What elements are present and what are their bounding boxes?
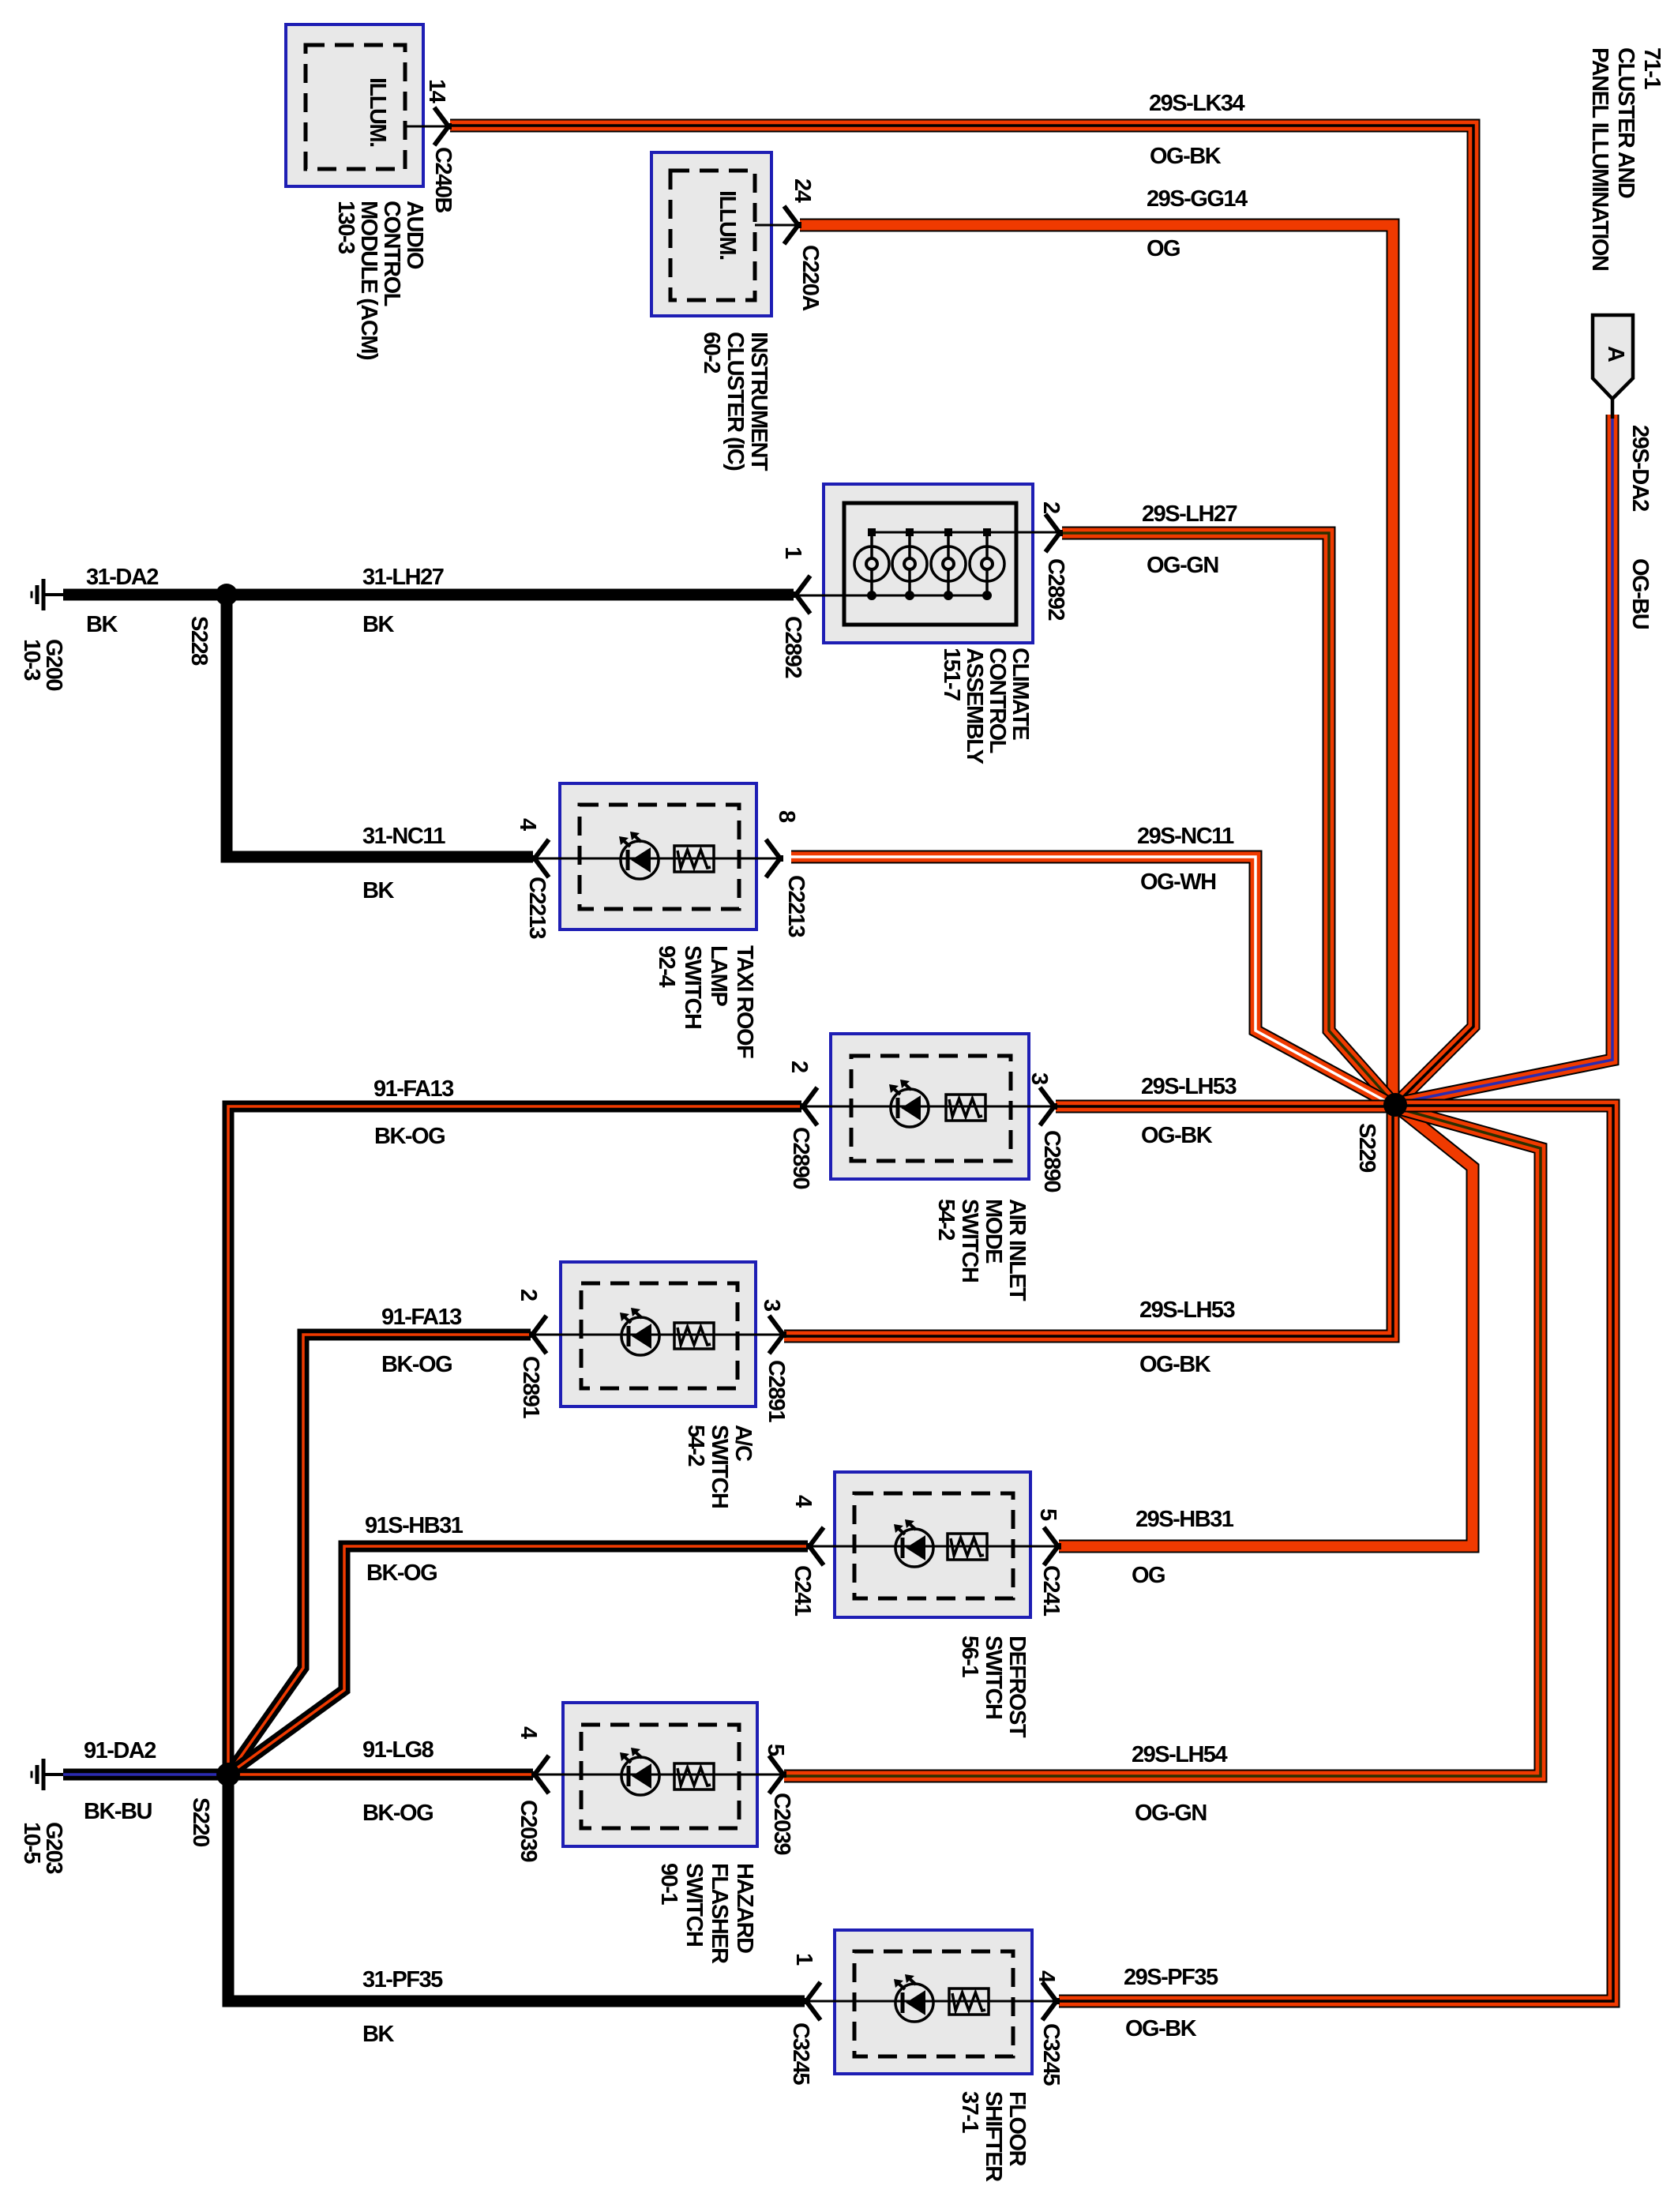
svg-text:29S-PF35: 29S-PF35 xyxy=(1124,1965,1218,1990)
svg-text:MODE: MODE xyxy=(981,1199,1006,1264)
splice S220 junction dot xyxy=(216,1763,240,1786)
svg-text:90-1: 90-1 xyxy=(656,1863,681,1905)
svg-text:LAMP: LAMP xyxy=(706,945,731,1006)
svg-text:BK-OG: BK-OG xyxy=(381,1352,452,1377)
svg-text:CONTROL: CONTROL xyxy=(379,201,404,306)
wire 31-PF35 BK (S220 to floor shifter pin 1) xyxy=(228,1774,805,2001)
component box CLIMATE CONTROL ASSEMBLY 151-7 xyxy=(824,484,1033,643)
wire 29S-LH53 OG-BK (air inlet mode switch pin 3 to S229) xyxy=(1056,1100,1390,1114)
svg-text:OG-BK: OG-BK xyxy=(1139,1352,1211,1377)
svg-text:29S-HB31: 29S-HB31 xyxy=(1135,1507,1234,1532)
component box INSTRUMENT CLUSTER (IC) 60-2 xyxy=(651,152,771,316)
component box AIR INLET MODE SWITCH 54-2 xyxy=(831,1034,1029,1179)
svg-text:56-1: 56-1 xyxy=(957,1636,982,1677)
svg-text:BK-OG: BK-OG xyxy=(366,1560,437,1586)
svg-text:29S-DA2: 29S-DA2 xyxy=(1627,425,1653,511)
svg-text:31-LH27: 31-LH27 xyxy=(362,565,444,590)
wire 29S-GG14 OG (instrument cluster pin 24 to S229) xyxy=(800,225,1393,1098)
svg-text:29S-LK34: 29S-LK34 xyxy=(1149,91,1245,116)
floor shifter pin 1 connector C3245 xyxy=(806,1982,820,2020)
svg-text:OG-GN: OG-GN xyxy=(1147,553,1218,578)
svg-text:29S-GG14: 29S-GG14 xyxy=(1147,186,1248,212)
svg-text:S228: S228 xyxy=(186,616,212,666)
svg-text:OG-BU: OG-BU xyxy=(1627,558,1653,629)
svg-text:54-2: 54-2 xyxy=(683,1425,708,1466)
svg-text:S220: S220 xyxy=(188,1797,213,1846)
wire 29S-HB31 OG (S229 to defrost switch pin 5) xyxy=(1059,1107,1473,1546)
svg-text:4: 4 xyxy=(516,1726,541,1739)
wire 91S-HB31 BK-OG (S220 to defrost switch pin 4) xyxy=(228,1546,808,1774)
floor shifter pin 4 connector C3245 xyxy=(1042,1982,1057,2020)
wire 91-FA13 BK-OG (S220 to air inlet mode switch pin 2) xyxy=(228,1106,801,1774)
wire 91-LG8 BK-OG (S220 to hazard flasher switch pin 4) xyxy=(228,1769,533,1781)
svg-text:151-7: 151-7 xyxy=(939,648,964,700)
climate pin 2 connector C2892 xyxy=(1045,514,1060,552)
splice S228 xyxy=(216,584,238,606)
svg-text:BK-OG: BK-OG xyxy=(362,1801,433,1826)
svg-text:SWITCH: SWITCH xyxy=(680,945,705,1028)
defrost switch pin 4 connector C241 xyxy=(809,1527,824,1565)
svg-text:C2039: C2039 xyxy=(516,1800,541,1862)
svg-text:8: 8 xyxy=(774,810,799,823)
svg-text:OG-BK: OG-BK xyxy=(1141,1123,1213,1148)
svg-text:54-2: 54-2 xyxy=(933,1199,959,1240)
svg-text:C220A: C220A xyxy=(798,245,823,311)
taxi switch pin 8 connector C2213 xyxy=(766,839,780,877)
svg-text:2: 2 xyxy=(786,1061,812,1072)
ground G200 xyxy=(43,593,63,596)
svg-text:FLOOR: FLOOR xyxy=(1004,2091,1030,2167)
component box HAZARD FLASHER SWITCH 90-1 xyxy=(563,1703,757,1846)
svg-text:DEFROST: DEFROST xyxy=(1004,1636,1030,1738)
svg-text:5: 5 xyxy=(1035,1508,1060,1521)
svg-text:SWITCH: SWITCH xyxy=(957,1199,982,1282)
svg-text:29S-LH54: 29S-LH54 xyxy=(1132,1742,1228,1767)
svg-text:CLUSTER (IC): CLUSTER (IC) xyxy=(723,332,748,471)
taxi switch pin 4 connector C2213 xyxy=(535,839,549,877)
svg-text:FLASHER: FLASHER xyxy=(707,1863,732,1964)
svg-text:60-2: 60-2 xyxy=(699,332,724,373)
svg-text:3: 3 xyxy=(1027,1072,1052,1085)
wire 29S-LK34 OG-BK (ACM pin 14 to S229) xyxy=(450,126,1473,1102)
svg-text:HAZARD: HAZARD xyxy=(732,1863,757,1953)
svg-text:31-DA2: 31-DA2 xyxy=(86,565,158,590)
svg-text:BK: BK xyxy=(362,878,394,903)
svg-text:29S-LH53: 29S-LH53 xyxy=(1141,1074,1237,1099)
svg-text:C2891: C2891 xyxy=(518,1356,543,1418)
svg-text:14: 14 xyxy=(424,79,449,103)
svg-text:A: A xyxy=(1603,346,1628,362)
component box DEFROST SWITCH 56-1 xyxy=(835,1472,1030,1617)
ground G203 xyxy=(43,1773,63,1776)
svg-text:C2039: C2039 xyxy=(769,1793,794,1855)
svg-text:130-3: 130-3 xyxy=(333,201,358,254)
IC pin 24 connector C220A xyxy=(755,224,798,227)
svg-text:ILLUM.: ILLUM. xyxy=(365,77,390,147)
svg-text:A/C: A/C xyxy=(730,1425,756,1462)
svg-text:AUDIO: AUDIO xyxy=(402,201,427,269)
svg-text:C241: C241 xyxy=(1038,1565,1064,1617)
A/C switch pin 3 connector C2891 xyxy=(769,1316,783,1354)
svg-text:OG-BK: OG-BK xyxy=(1125,2016,1197,2041)
wire 31-NC11 BK (S228 to taxi roof lamp switch pin 4) xyxy=(227,595,533,857)
svg-text:4: 4 xyxy=(1034,1970,1059,1983)
svg-text:C3245: C3245 xyxy=(788,2022,813,2085)
climate control illumination bulbs xyxy=(872,531,1060,534)
wire 29S-DA2 OG-BU (connector A to S229) xyxy=(1401,415,1612,1102)
component box AUDIO CONTROL MODULE (ACM) 130-3 xyxy=(286,24,423,186)
svg-text:TAXI ROOF: TAXI ROOF xyxy=(732,945,757,1058)
svg-text:OG-BK: OG-BK xyxy=(1150,144,1222,169)
component box FLOOR SHIFTER 37-1 xyxy=(835,1930,1032,2074)
splice S229 junction dot xyxy=(1383,1093,1407,1117)
svg-text:1: 1 xyxy=(780,546,805,559)
wire 29S-NC11 OG-WH (taxi roof lamp switch pin 8 to S229) xyxy=(791,857,1388,1102)
svg-text:OG: OG xyxy=(1132,1563,1165,1588)
svg-text:10-3: 10-3 xyxy=(19,639,44,681)
svg-text:OG-GN: OG-GN xyxy=(1135,1801,1207,1826)
svg-text:BK-OG: BK-OG xyxy=(374,1124,445,1149)
svg-text:BK: BK xyxy=(362,2022,394,2047)
svg-text:C2891: C2891 xyxy=(764,1360,789,1422)
svg-text:91-FA13: 91-FA13 xyxy=(381,1305,462,1330)
svg-text:BK-BU: BK-BU xyxy=(84,1799,152,1824)
svg-text:S229: S229 xyxy=(1354,1123,1379,1173)
wire 91-DA2 BK-BU (G203 to S220) xyxy=(63,1769,228,1781)
svg-text:5: 5 xyxy=(763,1744,788,1756)
svg-text:91-FA13: 91-FA13 xyxy=(373,1076,454,1102)
svg-text:CLIMATE: CLIMATE xyxy=(1008,648,1033,740)
svg-text:24: 24 xyxy=(790,178,815,203)
wire 29S-LH54 OG-GN (S229 to hazard flasher switch pin 5) xyxy=(784,1109,1541,1776)
svg-text:PANEL ILLUMINATION: PANEL ILLUMINATION xyxy=(1587,47,1612,270)
svg-text:BK: BK xyxy=(362,612,394,637)
svg-text:91-DA2: 91-DA2 xyxy=(84,1738,156,1763)
component box TAXI ROOF LAMP SWITCH 92-4 xyxy=(560,783,756,929)
svg-text:2: 2 xyxy=(1038,501,1064,513)
svg-text:92-4: 92-4 xyxy=(654,945,679,987)
svg-text:2: 2 xyxy=(516,1289,541,1301)
svg-text:91S-HB31: 91S-HB31 xyxy=(365,1513,464,1538)
svg-text:31-PF35: 31-PF35 xyxy=(362,1967,443,1992)
svg-text:4: 4 xyxy=(515,818,540,831)
svg-text:C2890: C2890 xyxy=(1039,1130,1064,1192)
svg-text:SWITCH: SWITCH xyxy=(981,1636,1006,1718)
svg-text:INSTRUMENT: INSTRUMENT xyxy=(746,332,771,471)
svg-text:1: 1 xyxy=(791,1953,816,1966)
svg-text:SWITCH: SWITCH xyxy=(707,1425,732,1508)
svg-text:4: 4 xyxy=(790,1495,816,1508)
wire 29S-PF35 OG-BK (S229 to floor shifter pin 4) xyxy=(1059,1106,1613,2001)
svg-text:MODULE (ACM): MODULE (ACM) xyxy=(356,201,381,360)
ACM pin 14 connector C240B xyxy=(405,126,447,128)
svg-text:C2213: C2213 xyxy=(783,875,809,937)
hazard switch pin 5 connector C2039 xyxy=(769,1756,783,1793)
connector flag A (29S-DA2 feed) xyxy=(1593,315,1633,399)
svg-text:91-LG8: 91-LG8 xyxy=(362,1737,434,1763)
svg-text:ILLUM.: ILLUM. xyxy=(715,190,740,260)
wire 29S-LH27 OG-GN (climate control pin 2 to S229) xyxy=(1062,533,1391,1101)
svg-text:29S-LH53: 29S-LH53 xyxy=(1139,1298,1236,1323)
svg-text:BK: BK xyxy=(86,612,118,637)
svg-text:C2213: C2213 xyxy=(524,877,550,939)
svg-text:SHIFTER: SHIFTER xyxy=(981,2091,1006,2182)
wire 31-LH27 BK (S228 to climate control pin 1) xyxy=(227,589,794,601)
svg-text:37-1: 37-1 xyxy=(957,2091,982,2133)
svg-text:CLUSTER AND: CLUSTER AND xyxy=(1613,47,1638,198)
hazard switch pin 4 connector C2039 xyxy=(535,1756,549,1793)
svg-text:31-NC11: 31-NC11 xyxy=(362,824,445,849)
svg-text:C2892: C2892 xyxy=(1043,558,1068,620)
svg-text:3: 3 xyxy=(759,1299,784,1312)
svg-text:CONTROL: CONTROL xyxy=(985,648,1010,753)
wire 91-FA13 BK-OG (S220 to A/C switch pin 2) xyxy=(228,1335,531,1774)
svg-text:10-5: 10-5 xyxy=(19,1822,44,1864)
air inlet switch pin 3 connector C2890 xyxy=(1040,1087,1054,1125)
svg-text:C2892: C2892 xyxy=(780,616,805,678)
wire 29S-LH53 OG-BK (S229 to A/C switch pin 3) xyxy=(784,1110,1393,1336)
svg-text:AIR INLET: AIR INLET xyxy=(1004,1199,1030,1301)
climate pin 1 connector C2892 xyxy=(796,576,810,614)
svg-text:ASSEMBLY: ASSEMBLY xyxy=(962,648,987,764)
air inlet switch pin 2 connector C2890 xyxy=(803,1087,817,1125)
svg-text:71-1: 71-1 xyxy=(1639,47,1665,89)
svg-text:29S-LH27: 29S-LH27 xyxy=(1142,501,1237,527)
svg-text:29S-NC11: 29S-NC11 xyxy=(1137,824,1234,849)
component box A/C SWITCH 54-2 xyxy=(561,1262,756,1406)
svg-text:C240B: C240B xyxy=(430,147,456,212)
svg-text:SWITCH: SWITCH xyxy=(681,1863,707,1946)
svg-text:OG-WH: OG-WH xyxy=(1140,869,1216,895)
A/C switch pin 2 connector C2891 xyxy=(532,1316,546,1354)
defrost switch pin 5 connector C241 xyxy=(1044,1527,1058,1565)
svg-text:C2890: C2890 xyxy=(788,1127,813,1189)
svg-text:C241: C241 xyxy=(790,1565,815,1617)
svg-text:C3245: C3245 xyxy=(1038,2023,1064,2086)
wire 31-DA2 BK (G200 to S228) xyxy=(63,589,227,601)
svg-text:OG: OG xyxy=(1147,236,1180,261)
